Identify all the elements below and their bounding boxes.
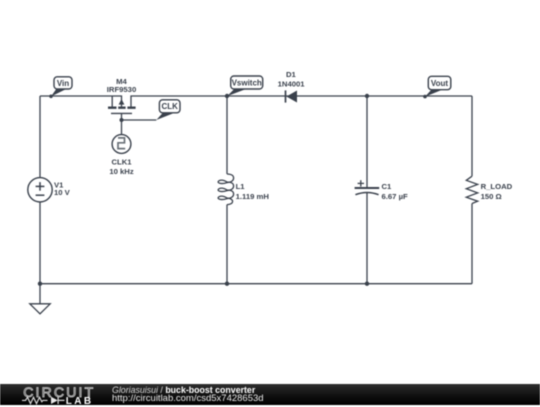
svg-text:Vswitch: Vswitch [232,78,262,87]
svg-text:Vout: Vout [431,79,449,88]
svg-text:CLK1: CLK1 [111,158,132,167]
svg-text:D1: D1 [286,70,297,79]
svg-text:CLK: CLK [161,102,178,111]
svg-text:6.67 µF: 6.67 µF [382,192,409,201]
svg-text:10 kHz: 10 kHz [109,167,134,176]
svg-text:1N4001: 1N4001 [278,79,306,88]
svg-text:Vin: Vin [57,79,69,88]
svg-text:IRF9530: IRF9530 [107,85,137,94]
svg-text:10 V: 10 V [54,188,71,197]
svg-text:1.119 mH: 1.119 mH [236,192,270,201]
svg-text:L1: L1 [236,182,246,191]
svg-text:R_LOAD: R_LOAD [481,182,513,191]
svg-text:150 Ω: 150 Ω [481,192,502,201]
svg-text:C1: C1 [382,182,393,191]
